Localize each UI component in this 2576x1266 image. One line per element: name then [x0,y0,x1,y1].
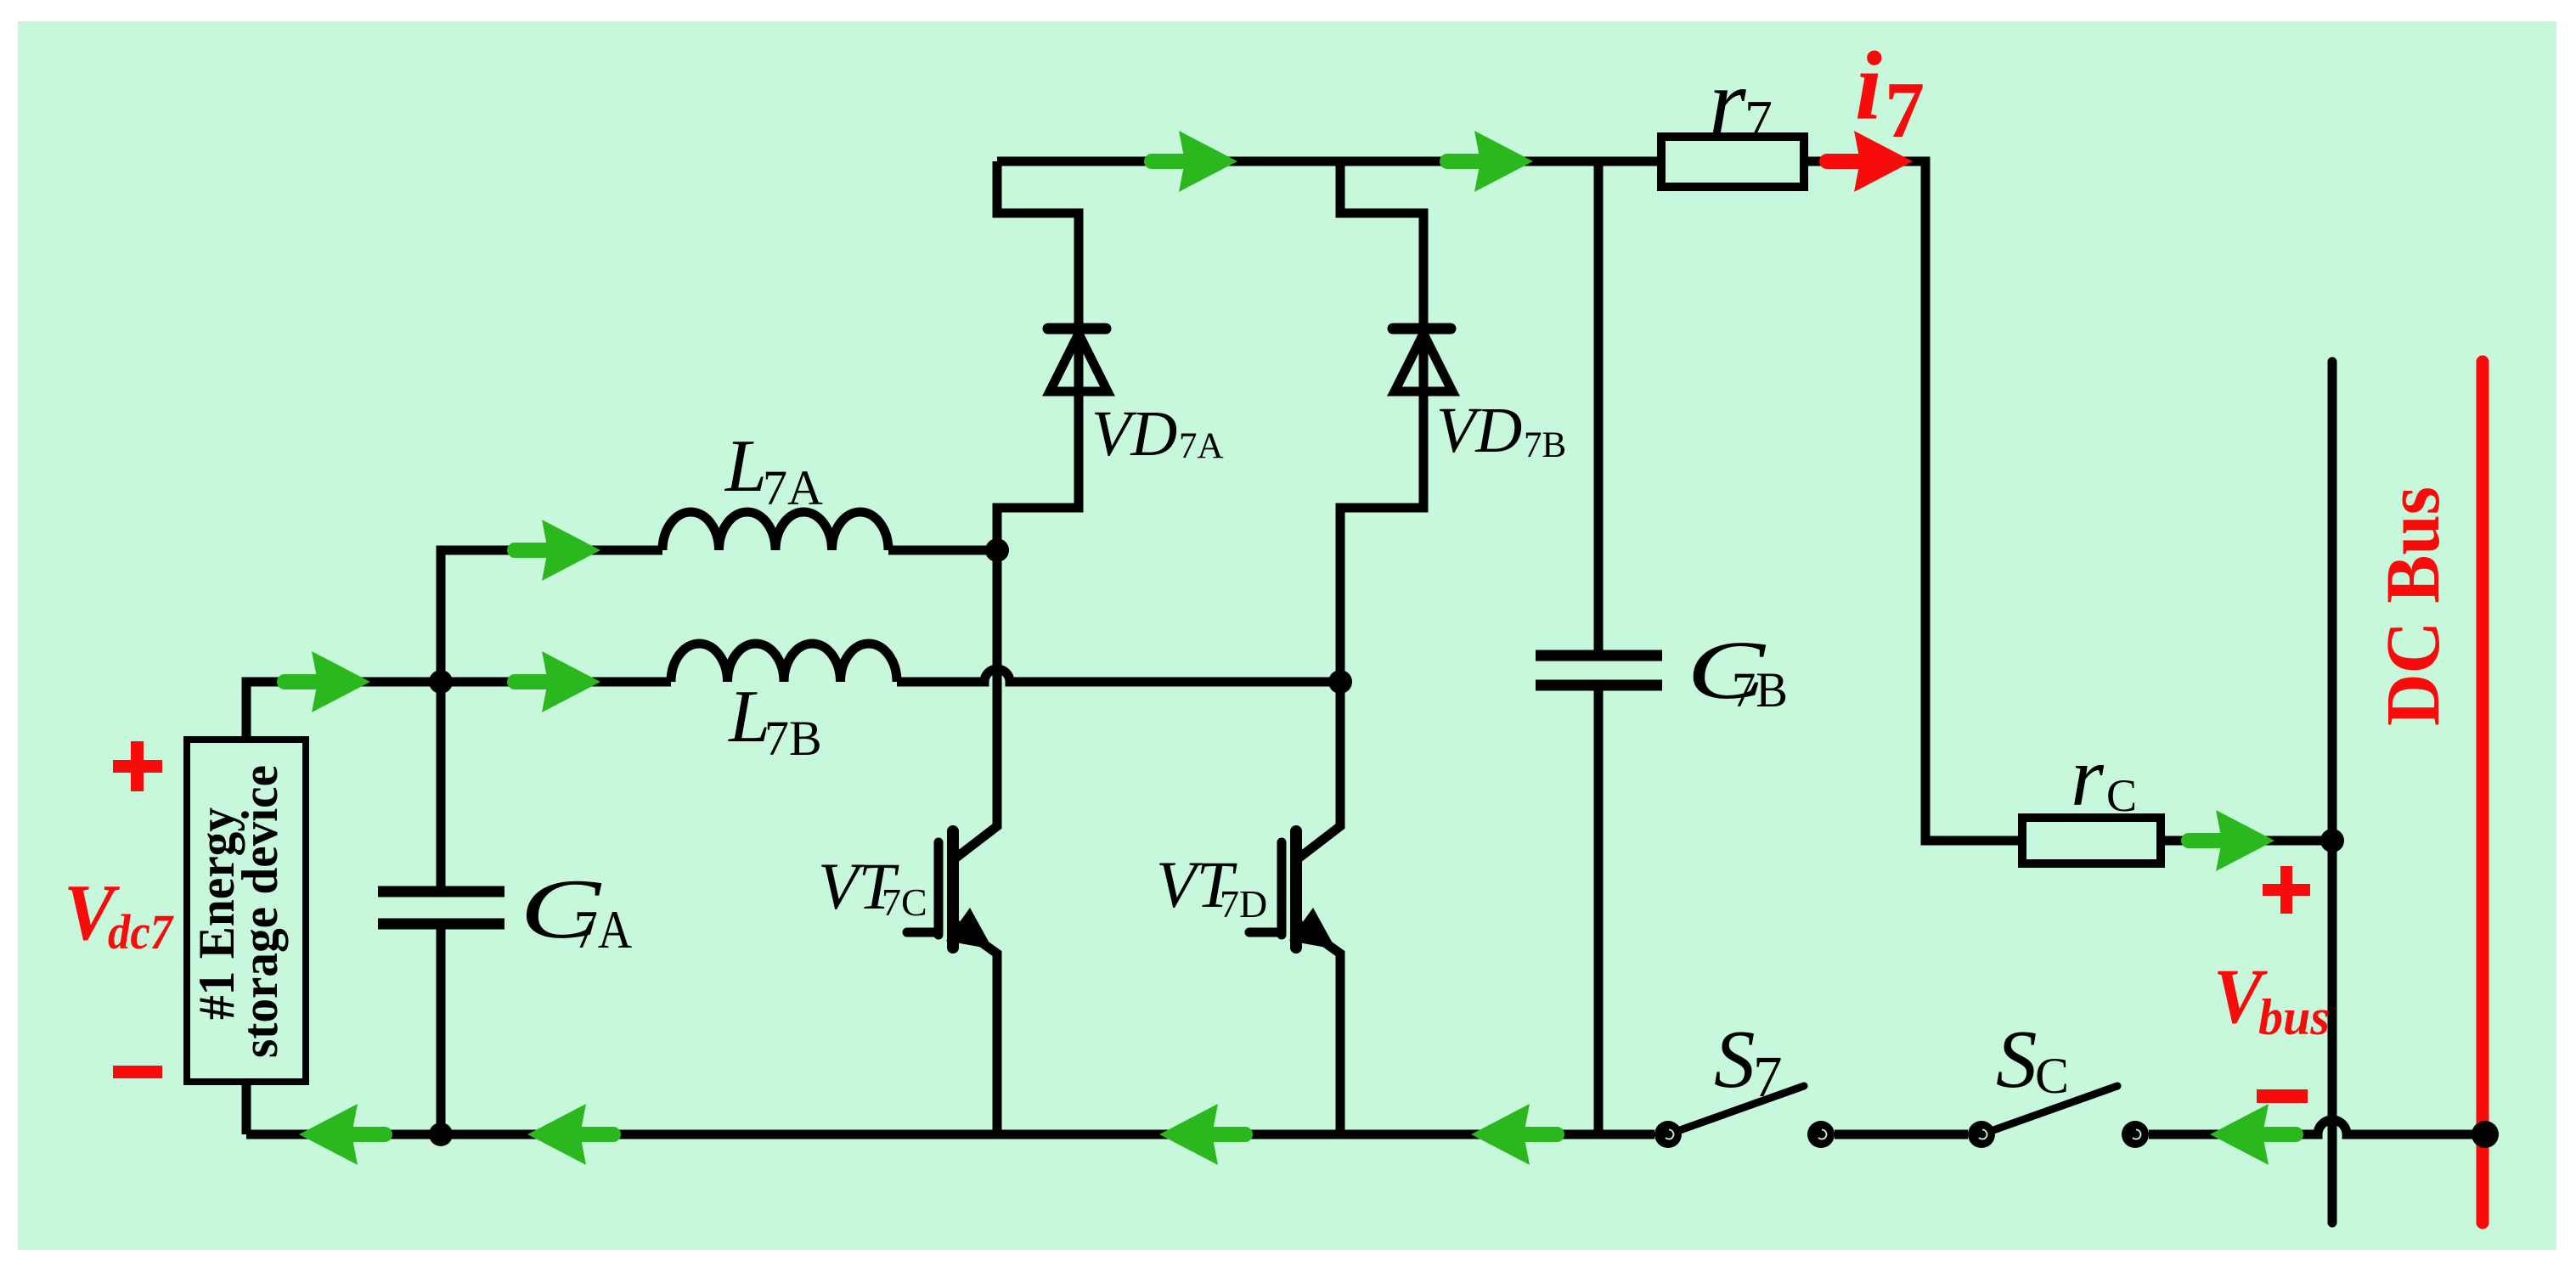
capacitor C7A plates [378,892,504,924]
arrow: bottom rail from red bus [2210,1104,2296,1165]
capacitor C7A top lead [437,682,446,886]
transistor VT7C collector wire [953,550,997,860]
transistor VT7C emitter arrowhead [946,908,993,949]
svg-text:7: 7 [1745,89,1773,151]
wire: battery negative lead [242,1082,251,1134]
node B junction dot (L7A / VD7A / VT7C) [985,538,1009,562]
arrow: rC output to bus [2189,810,2274,871]
svg-text:VD: VD [1091,398,1177,470]
node: C7A bottom junction dot [429,1123,453,1146]
capacitor C7A bottom lead [437,929,446,1134]
diode VD7B symbol [1393,329,1452,391]
svg-text:7: 7 [1885,66,1925,155]
node C junction dot (L7B / VD7B / VT7D) [1328,670,1352,694]
svg-text:7A: 7A [763,460,823,515]
svg-text:dc7: dc7 [108,904,174,959]
diode VD7B branch wire [1340,161,1423,682]
switch S7 blade [1668,1086,1804,1134]
switch SC right contact [2122,1121,2149,1148]
current arrow i7 (red) [1827,131,1913,192]
wire: node A to L7B input [441,678,671,687]
svg-text:7A: 7A [1179,426,1224,466]
wire: node A up to L7A input [441,550,662,682]
node: bottom rail to red bus junction dot [2472,1121,2499,1148]
svg-text:C: C [2106,770,2137,821]
svg-text:7B: 7B [1732,662,1788,717]
capacitor C7B plates [1536,656,1662,685]
DC bus black line [2328,362,2337,1223]
diode VD7A branch wire [997,161,1079,550]
transistor VT7D body bar [1290,831,1302,948]
node: rC to black bus junction dot [2320,829,2344,852]
arrow: bottom rail left of S7 [1471,1104,1557,1165]
inductor L7A [662,512,888,550]
svg-text:S: S [1714,1014,1756,1105]
inductor L7B [671,644,897,682]
svg-text:bus: bus [2258,989,2330,1045]
wire: L7A output to node B [888,546,997,555]
label minus right (red) [2257,1089,2308,1103]
arrow: into L7A [515,520,600,581]
switch S7 right contact [1807,1121,1835,1148]
capacitor C7B top lead [1594,161,1604,650]
wire: bottom rail between S7 and SC [1835,1130,1968,1139]
resistor rC box [2022,818,2161,864]
svg-text:L: L [724,425,767,508]
arrow: top bus right [1447,131,1533,192]
svg-text:storage device: storage device [232,765,288,1058]
energy storage device box [187,740,306,1082]
label minus left (red) [113,1066,162,1078]
svg-text:7A: 7A [574,900,632,959]
switch S7 left contact [1654,1121,1682,1148]
transistor VT7D collector wire [1296,682,1340,860]
svg-text:7C: 7C [882,881,927,924]
label plus right (red) [2263,866,2310,914]
transistor VT7D gate lead [1249,928,1282,937]
arrow: bottom rail toward C7A node [527,1104,613,1165]
wire: r_C output to DC bus junction [2161,836,2332,846]
label plus left (red) [113,741,162,791]
svg-text:i: i [1855,32,1882,140]
capacitor C7B bottom lead [1594,690,1604,1134]
transistor VT7C gate lead [907,928,939,937]
wire: r7 to corner, down, to r_C [1804,161,2022,841]
arrow: bottom rail mid [1159,1104,1245,1165]
arrow: battery to node A [285,651,370,712]
wire: battery positive lead to node A [246,682,441,740]
current arrows (green) [285,131,2296,1165]
transistor VT7D gate bar [1277,842,1287,935]
wire: bottom rail left section [246,1130,1654,1139]
svg-text:7D: 7D [1220,882,1267,926]
svg-text:7B: 7B [764,711,822,766]
switch SC blade [1981,1086,2117,1134]
svg-text:S: S [1996,1014,2038,1105]
wire: bottom rail from SC with hop over black bus to red bus [2149,1120,2485,1134]
svg-text:r: r [2071,729,2105,824]
transistor VT7C gate bar [934,842,944,935]
node A junction dot [429,670,453,694]
svg-text:7: 7 [1753,1044,1783,1109]
transistor VT7D emitter wire [1296,922,1340,1134]
arrow: bottom rail into battery [299,1104,385,1165]
switch contact inner highlights [1666,1130,2140,1139]
DC bus red line [2477,362,2489,1223]
arrow: top bus left [1152,131,1237,192]
arrow: into L7B [515,651,600,712]
wire: top bus from VD7A tap to resistor r7 [997,157,1661,166]
transistor VT7D emitter arrowhead [1289,908,1336,949]
svg-text:7B: 7B [1524,425,1566,465]
svg-text:r: r [1709,50,1746,155]
wire: L7B output with hop over VT7C collector, to node C [897,669,1340,682]
switch SC left contact [1968,1121,1995,1148]
diode VD7A symbol [1048,329,1108,391]
transistor VT7C emitter wire [953,922,997,1134]
resistor r7 box [1661,137,1804,187]
transistor VT7C body bar [947,831,959,948]
svg-text:VD: VD [1436,395,1522,466]
svg-text:C: C [2035,1048,2069,1104]
svg-text:DC Bus: DC Bus [2371,487,2455,726]
